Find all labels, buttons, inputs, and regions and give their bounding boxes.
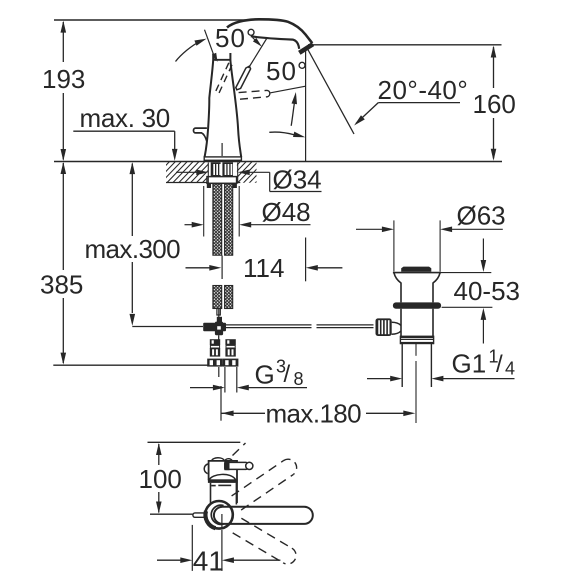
- 160 top arrow: [491, 46, 497, 58]
- 100 bottom arrow: [156, 502, 162, 514]
- escutcheon base plate: [204, 157, 241, 160]
- spout bottom edge: [251, 36, 299, 49]
- counter bottom line: [166, 182, 240, 184]
- countertop hatching: [148, 160, 283, 184]
- spout neck and top curve: [227, 19, 312, 43]
- housing small marks: [211, 485, 216, 487]
- Ø34 arrows: [176, 171, 198, 173]
- pop-up rod pointer line: [132, 326, 203, 328]
- svg-text:Ø48: Ø48: [262, 197, 311, 227]
- Ø63 shelf line: [451, 228, 503, 230]
- outlet drop extension line: [305, 47, 307, 161]
- svg-text:385: 385: [40, 270, 83, 300]
- 41 extension lines: [191, 525, 193, 571]
- faucet body top joint line: [213, 59, 230, 61]
- washer ears: [207, 184, 211, 188]
- max.30 down arrow: [172, 149, 178, 161]
- housing top bumps: [212, 458, 233, 461]
- 50° leader line: [253, 38, 260, 45]
- rotation arc up-arrow: [291, 96, 295, 126]
- max.180 right arrow: [403, 411, 415, 417]
- drain tailpipe: [401, 344, 403, 387]
- G3/8 extension lines: [218, 367, 220, 377]
- svg-text:50°: 50°: [266, 56, 308, 86]
- ghost spout down-right: [241, 518, 291, 548]
- svg-text:40-53: 40-53: [454, 276, 521, 306]
- svg-text:50°: 50°: [215, 23, 257, 53]
- top view rod stub: [193, 513, 207, 517]
- top view body column: [210, 483, 212, 504]
- ghost spout up-right: [232, 460, 284, 495]
- svg-text:G1: G1: [452, 349, 487, 379]
- ghost lever dashed (left tilt): [214, 63, 229, 95]
- spout bar: [214, 507, 313, 524]
- 114 dimension left arrow: [186, 267, 211, 269]
- ghost handle dashed (right tilt): [239, 90, 267, 92]
- Ø63 arrows: [356, 228, 383, 230]
- dimension 193 top arrow: [61, 21, 67, 33]
- faucet body left edge: [205, 54, 214, 158]
- max.30 drop line: [174, 131, 176, 149]
- drain flange: [394, 273, 440, 303]
- top view lever rod: [225, 462, 247, 469]
- pop-up knob: [401, 267, 431, 272]
- rod arm to drain: [392, 322, 401, 334]
- hose left tail: [217, 309, 220, 316]
- svg-text:max.300: max.300: [85, 234, 181, 264]
- hose-end reference line for 385: [53, 364, 237, 366]
- svg-text:8: 8: [294, 369, 304, 389]
- G3/8 right arrow: [237, 385, 249, 391]
- 41 arrows: [157, 559, 182, 561]
- Ø34 extension lines: [207, 163, 209, 184]
- max.300 bottom arrow: [130, 314, 136, 326]
- outer circle heavy arc: [205, 511, 215, 528]
- countertop line: [54, 161, 502, 163]
- max.180 dimension line: [221, 412, 265, 414]
- horizontal pop-up rod: [226, 324, 312, 326]
- 20-40 leader line: [356, 103, 378, 124]
- 40-53 dimension arrows: [482, 239, 484, 262]
- svg-text:4: 4: [505, 359, 515, 379]
- svg-text:/: /: [284, 361, 291, 388]
- svg-text:Ø63: Ø63: [457, 201, 506, 231]
- 114 dimension right arrow: [306, 265, 318, 271]
- max.30 shelf line: [73, 130, 174, 132]
- lever axis extension line: [249, 38, 268, 68]
- mounting washer: [207, 177, 237, 184]
- flexible hose left lower: [213, 286, 222, 309]
- flexible hose left upper: [213, 184, 222, 255]
- dimension 385 vertical line: [62, 163, 64, 270]
- 20-40 shelf line: [378, 102, 460, 104]
- top view upper reference line: [148, 441, 241, 443]
- housing inner dome: [209, 474, 235, 480]
- pop-up rod vertical: [221, 143, 223, 156]
- threaded shank: [211, 162, 233, 176]
- 50° leader arrow: [253, 38, 262, 47]
- max.300 top arrow: [130, 162, 136, 174]
- dimension 193 bottom arrow: [61, 149, 67, 161]
- hose fitting right (G3/8): [225, 339, 235, 345]
- svg-text:160: 160: [473, 89, 516, 119]
- svg-text:114: 114: [243, 253, 284, 283]
- G3/8 left arrow: [190, 387, 214, 389]
- max.180 left arrow: [222, 411, 234, 417]
- dimension 193 vertical line: [62, 22, 64, 62]
- dimension 385 top arrow: [61, 162, 67, 174]
- drain bottom nut: [400, 336, 433, 338]
- left C curve: [204, 464, 208, 474]
- housing dark band: [208, 479, 238, 483]
- svg-text:Ø34: Ø34: [273, 165, 322, 195]
- 100 top arrow: [156, 443, 162, 455]
- dimension max.300 vertical line: [131, 164, 133, 237]
- spout outlet face: [299, 44, 313, 53]
- inner circle arc: [211, 505, 223, 524]
- Ø34 leader step: [269, 172, 271, 191]
- drain collar: [393, 302, 441, 308]
- flexible hose right upper: [225, 184, 233, 255]
- top reference line (spout apex level): [54, 19, 249, 21]
- ghost lever dashes: [233, 443, 246, 456]
- 50° arc arrow left: [176, 41, 202, 62]
- rod knurled knob: [376, 318, 392, 336]
- spout outlet reference line: [308, 44, 502, 46]
- dimension 100 line: [158, 444, 160, 465]
- svg-text:41: 41: [193, 546, 224, 577]
- svg-text:G: G: [255, 360, 275, 390]
- center line in circle: [221, 514, 223, 527]
- svg-text:100: 100: [139, 464, 182, 494]
- drain body: [400, 309, 402, 337]
- flexible hose right lower: [225, 286, 233, 309]
- dimension 385 bottom arrow: [61, 353, 67, 365]
- svg-text:193: 193: [42, 64, 85, 94]
- 40-53 extension lines: [441, 272, 491, 274]
- top view lower reference line: [150, 513, 193, 515]
- pop-up rod knob on body: [193, 128, 206, 141]
- arrowhead at body corner: [212, 53, 217, 62]
- rod stub below clamp: [218, 335, 220, 339]
- top view housing: [209, 461, 237, 503]
- 160 bottom arrow: [491, 149, 497, 161]
- svg-text:max. 30: max. 30: [80, 103, 170, 133]
- rotation axis line: [271, 86, 306, 93]
- Ø48 shelf line: [250, 224, 311, 226]
- svg-text:max.180: max.180: [266, 399, 362, 429]
- handle lever: [236, 66, 251, 90]
- hose fitting left (G3/8): [210, 339, 220, 345]
- spray direction diagonal: [307, 47, 355, 134]
- 20-40 leader arrow: [354, 115, 365, 125]
- rod clamp connector: [217, 317, 222, 323]
- Ø48 extension lines: [203, 186, 205, 237]
- drain center line: [415, 344, 417, 356]
- G1 1/4 arrows: [431, 376, 443, 382]
- dimension 160 vertical line: [493, 47, 495, 88]
- Ø48 arrows: [185, 224, 194, 226]
- outer circle: [205, 501, 233, 529]
- faucet body right edge: [230, 53, 241, 157]
- svg-text:20°-40°: 20°-40°: [378, 75, 469, 105]
- tilted handle axis line: [205, 30, 216, 61]
- svg-text:/: /: [496, 351, 503, 378]
- max.180 left extension line: [220, 386, 222, 421]
- Ø63 extension lines: [393, 220, 395, 271]
- rotation arc right-arrow: [269, 132, 294, 135]
